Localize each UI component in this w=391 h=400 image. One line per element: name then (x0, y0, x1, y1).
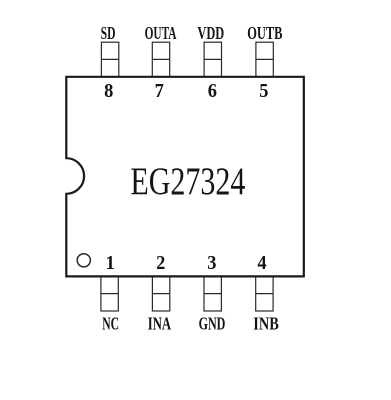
IC body U1 with pin-1 side notch (66, 77, 303, 277)
svg-text:OUTA: OUTA (145, 23, 177, 43)
svg-text:5: 5 (259, 80, 268, 102)
pin 8 lead (101, 42, 118, 76)
svg-text:INB: INB (253, 313, 278, 333)
pin 2 lead (152, 276, 169, 311)
svg-text:2: 2 (156, 252, 165, 274)
pin 3 lead (204, 276, 221, 311)
pin 6 lead (204, 42, 221, 76)
svg-text:6: 6 (208, 80, 217, 102)
pin 7 lead (152, 42, 169, 76)
pin 1 indicator dot (77, 254, 90, 267)
pin 1 lead (101, 276, 118, 311)
pin 5 lead (256, 42, 273, 76)
svg-text:4: 4 (257, 252, 266, 274)
svg-text:EG27324: EG27324 (130, 160, 245, 203)
svg-text:8: 8 (104, 80, 113, 102)
svg-text:7: 7 (155, 80, 164, 102)
svg-text:SD: SD (101, 23, 116, 43)
svg-text:VDD: VDD (197, 23, 224, 43)
pin 4 lead (256, 276, 273, 311)
svg-text:NC: NC (102, 313, 119, 333)
svg-text:GND: GND (199, 313, 226, 333)
svg-text:3: 3 (207, 252, 216, 274)
svg-text:OUTB: OUTB (247, 23, 282, 43)
svg-text:INA: INA (148, 313, 171, 333)
svg-text:1: 1 (106, 252, 115, 274)
